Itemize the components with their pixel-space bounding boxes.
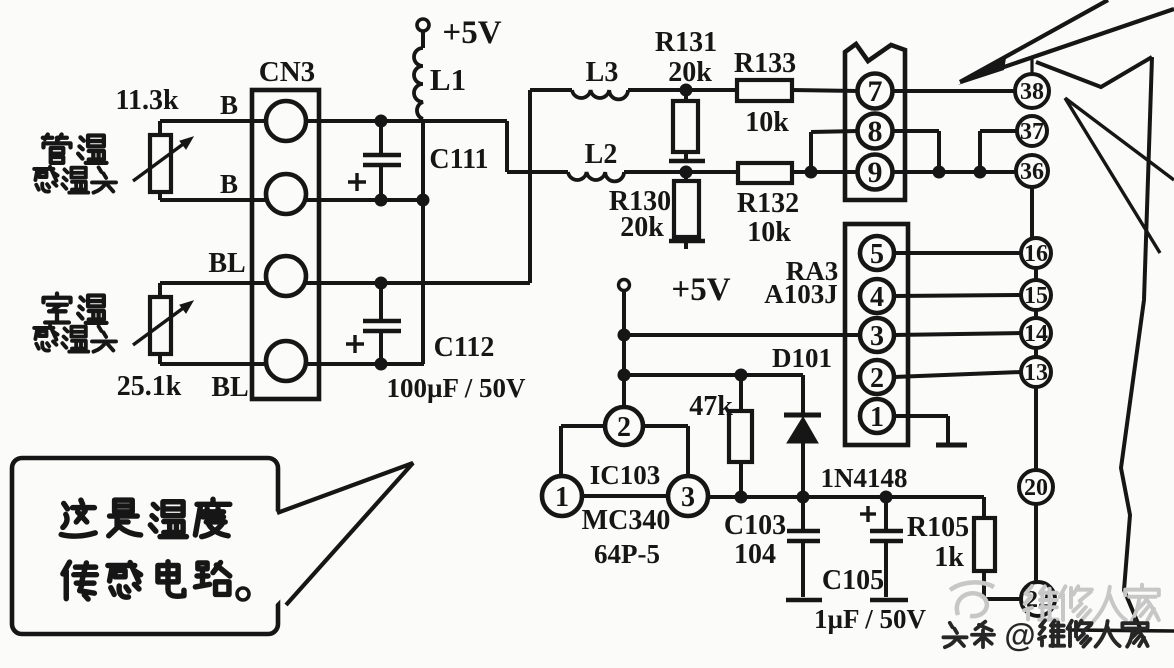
svg-text:100µF / 50V: 100µF / 50V [386,373,526,403]
svg-text:MC340: MC340 [582,505,671,536]
svg-text:104: 104 [734,539,776,570]
svg-text:BL: BL [211,372,248,403]
svg-text:R105: R105 [907,512,969,543]
svg-text:3: 3 [870,321,884,352]
svg-text:64P-5: 64P-5 [594,539,660,569]
svg-text:IC103: IC103 [590,460,661,490]
svg-text:1: 1 [555,482,569,513]
svg-text:8: 8 [868,115,883,148]
svg-text:C103: C103 [724,510,786,541]
svg-text:1: 1 [870,402,884,433]
svg-text:38: 38 [1020,79,1044,105]
svg-text:+5V: +5V [671,272,730,308]
svg-text:D101: D101 [772,343,832,373]
svg-text:BL: BL [208,248,245,279]
svg-text:C111: C111 [429,144,488,175]
svg-text:16: 16 [1024,241,1048,267]
svg-text:C112: C112 [434,332,495,363]
svg-text:3: 3 [681,482,695,513]
svg-text:25.1k: 25.1k [117,371,182,402]
svg-text:B: B [220,169,238,199]
svg-text:L2: L2 [585,139,618,170]
svg-text:R131: R131 [655,27,717,58]
svg-text:20k: 20k [620,212,664,243]
svg-text:CN3: CN3 [259,56,315,88]
svg-text:R133: R133 [734,48,796,79]
svg-text:A103J: A103J [764,279,838,309]
svg-text:@: @ [1004,617,1035,653]
svg-text:36: 36 [1020,159,1044,185]
svg-text:B: B [220,90,238,120]
svg-text:14: 14 [1024,321,1048,347]
svg-text:7: 7 [868,75,883,108]
svg-text:2: 2 [617,412,631,443]
svg-text:L1: L1 [430,62,466,97]
svg-text:10k: 10k [745,107,789,138]
svg-text:1k: 1k [934,542,964,573]
svg-text:15: 15 [1024,283,1048,309]
svg-text:9: 9 [868,156,883,189]
svg-text:13: 13 [1024,360,1048,386]
svg-text:1N4148: 1N4148 [821,463,908,493]
svg-text:10k: 10k [747,217,791,248]
svg-text:R132: R132 [737,188,799,219]
svg-text:5: 5 [870,239,884,270]
svg-text:47k: 47k [689,391,733,422]
svg-text:2: 2 [870,363,884,394]
svg-text:20: 20 [1024,475,1048,501]
svg-text:20k: 20k [668,57,712,88]
svg-text:C105: C105 [822,565,884,596]
svg-text:37: 37 [1020,119,1044,145]
svg-text:1µF / 50V: 1µF / 50V [814,604,927,634]
svg-text:+5V: +5V [442,15,501,51]
svg-text:4: 4 [870,282,884,313]
svg-text:L3: L3 [586,57,619,88]
svg-text:11.3k: 11.3k [115,85,178,116]
